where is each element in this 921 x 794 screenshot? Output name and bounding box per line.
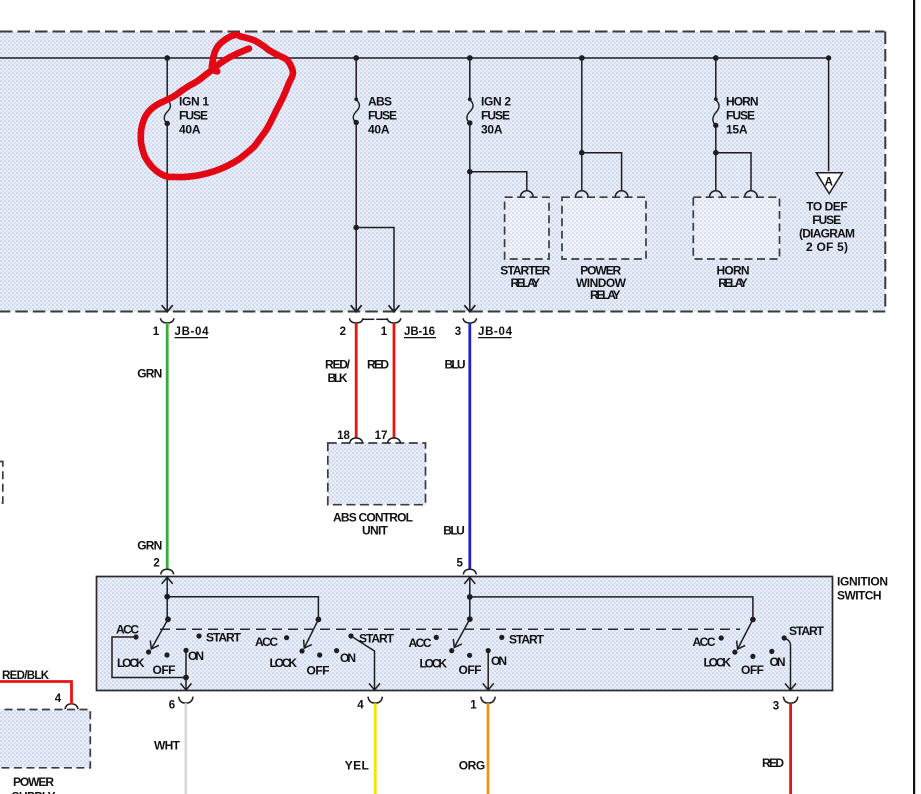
svg-text:ORG: ORG bbox=[459, 759, 486, 773]
svg-text:FUSE: FUSE bbox=[179, 109, 208, 123]
svg-text:1: 1 bbox=[381, 326, 388, 338]
svg-text:2: 2 bbox=[153, 558, 159, 570]
svg-text:RED/BLK: RED/BLK bbox=[2, 670, 50, 682]
svg-text:JB-04: JB-04 bbox=[478, 326, 513, 338]
svg-text:ACC: ACC bbox=[116, 623, 139, 637]
svg-text:3: 3 bbox=[773, 701, 779, 713]
svg-text:IGNITION: IGNITION bbox=[837, 574, 888, 588]
svg-text:40A: 40A bbox=[368, 123, 390, 137]
svg-text:LOCK: LOCK bbox=[420, 657, 448, 671]
svg-text:15A: 15A bbox=[726, 123, 748, 137]
svg-text:JB-16: JB-16 bbox=[404, 326, 435, 338]
svg-text:RELAY: RELAY bbox=[718, 276, 748, 290]
svg-text:2 OF 5): 2 OF 5) bbox=[806, 240, 848, 254]
svg-text:LOCK: LOCK bbox=[117, 656, 145, 670]
svg-text:HORN: HORN bbox=[726, 95, 759, 109]
svg-text:ON: ON bbox=[340, 651, 356, 665]
svg-text:4: 4 bbox=[55, 693, 62, 705]
svg-text:BLU: BLU bbox=[445, 358, 466, 372]
svg-text:ABS CONTROL: ABS CONTROL bbox=[333, 511, 413, 525]
svg-text:START: START bbox=[789, 624, 825, 638]
svg-text:ACC: ACC bbox=[409, 636, 432, 650]
svg-text:OFF: OFF bbox=[741, 663, 764, 677]
svg-text:SUPPLY: SUPPLY bbox=[12, 790, 56, 794]
svg-text:LOCK: LOCK bbox=[704, 656, 732, 670]
svg-text:WHT: WHT bbox=[154, 739, 181, 753]
svg-text:JB-04: JB-04 bbox=[175, 326, 210, 338]
svg-text:GRN: GRN bbox=[137, 367, 162, 381]
svg-text:GRN: GRN bbox=[137, 539, 162, 553]
svg-text:2: 2 bbox=[340, 326, 346, 338]
svg-text:3: 3 bbox=[455, 326, 461, 338]
svg-text:POWER: POWER bbox=[13, 775, 54, 789]
svg-text:RED/: RED/ bbox=[325, 358, 351, 372]
svg-text:BLK: BLK bbox=[328, 371, 348, 385]
svg-text:START: START bbox=[206, 631, 242, 645]
svg-text:ACC: ACC bbox=[255, 635, 278, 649]
svg-text:18: 18 bbox=[337, 430, 350, 442]
svg-text:START: START bbox=[359, 632, 395, 646]
svg-text:TO DEF: TO DEF bbox=[806, 199, 848, 213]
svg-text:START: START bbox=[509, 633, 545, 647]
svg-text:ABS: ABS bbox=[368, 95, 392, 109]
svg-text:OFF: OFF bbox=[459, 663, 482, 677]
svg-text:6: 6 bbox=[169, 700, 175, 712]
svg-text:ON: ON bbox=[188, 649, 204, 663]
svg-text:17: 17 bbox=[375, 430, 388, 442]
svg-text:ACC: ACC bbox=[693, 635, 716, 649]
svg-text:4: 4 bbox=[357, 700, 364, 712]
svg-text:ON: ON bbox=[770, 655, 786, 669]
svg-text:BLU: BLU bbox=[443, 524, 465, 538]
svg-text:ON: ON bbox=[491, 654, 507, 668]
svg-text:OFF: OFF bbox=[153, 663, 176, 677]
svg-text:1: 1 bbox=[470, 700, 477, 712]
svg-text:RED: RED bbox=[762, 756, 784, 770]
svg-text:RELAY: RELAY bbox=[511, 276, 541, 290]
svg-text:FUSE: FUSE bbox=[368, 109, 397, 123]
svg-text:1: 1 bbox=[153, 326, 160, 338]
svg-text:FUSE: FUSE bbox=[812, 213, 841, 227]
svg-text:FUSE: FUSE bbox=[481, 109, 510, 123]
svg-text:OFF: OFF bbox=[307, 664, 330, 678]
svg-text:YEL: YEL bbox=[345, 759, 369, 773]
svg-text:IGN 1: IGN 1 bbox=[179, 95, 209, 109]
svg-text:LOCK: LOCK bbox=[270, 656, 298, 670]
svg-text:40A: 40A bbox=[179, 123, 201, 137]
svg-text:30A: 30A bbox=[481, 123, 503, 137]
svg-text:(DIAGRAM: (DIAGRAM bbox=[799, 227, 855, 241]
svg-text:5: 5 bbox=[456, 557, 463, 569]
svg-text:RELAY: RELAY bbox=[590, 288, 621, 302]
svg-text:FUSE: FUSE bbox=[726, 109, 755, 123]
svg-text:A: A bbox=[825, 176, 833, 188]
svg-text:IGN 2: IGN 2 bbox=[481, 95, 511, 109]
svg-text:RED: RED bbox=[367, 358, 389, 372]
svg-text:UNIT: UNIT bbox=[362, 524, 389, 538]
svg-text:SWITCH: SWITCH bbox=[837, 589, 882, 603]
